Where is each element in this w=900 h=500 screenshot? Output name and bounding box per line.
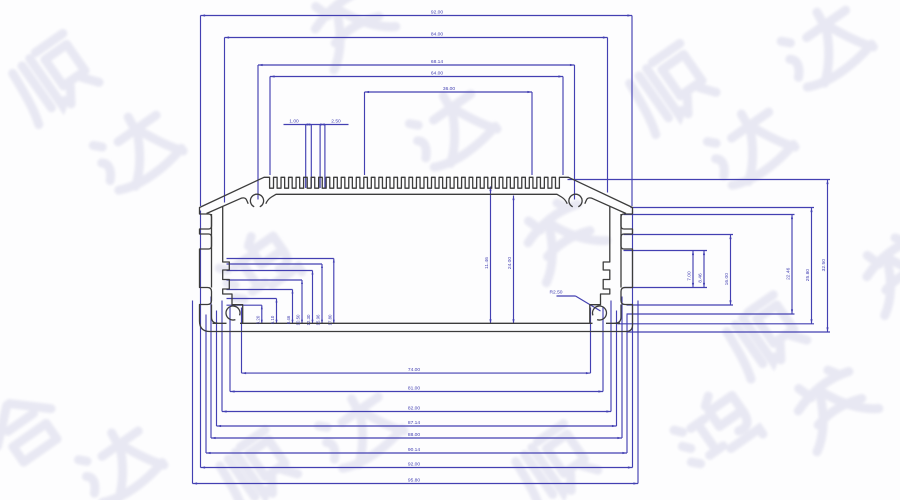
svg-text:10.50: 10.50	[296, 314, 301, 326]
svg-text:16.00: 16.00	[724, 273, 730, 286]
svg-text:22.46: 22.46	[785, 267, 791, 280]
svg-text:92.00: 92.00	[408, 461, 421, 467]
svg-text:68.14: 68.14	[431, 59, 444, 65]
svg-text:32.50: 32.50	[821, 259, 827, 272]
svg-text:92.00: 92.00	[431, 9, 444, 15]
svg-text:1.00: 1.00	[289, 118, 299, 124]
svg-text:2.50: 2.50	[331, 118, 341, 124]
svg-text:95.80: 95.80	[408, 477, 421, 483]
svg-text:90.14: 90.14	[408, 447, 421, 453]
svg-text:5.10: 5.10	[270, 315, 275, 324]
svg-text:74.00: 74.00	[408, 367, 421, 373]
svg-text:25.80: 25.80	[805, 269, 811, 282]
svg-text:8.46: 8.46	[697, 273, 703, 283]
svg-text:81.00: 81.00	[408, 385, 421, 391]
svg-text:64.00: 64.00	[431, 70, 444, 76]
svg-text:87.14: 87.14	[408, 420, 421, 426]
svg-text:36.00: 36.00	[443, 86, 456, 92]
svg-text:7.00: 7.00	[686, 271, 692, 281]
svg-text:24.00: 24.00	[507, 257, 513, 270]
svg-text:12.30: 12.30	[306, 314, 311, 326]
svg-text:84.00: 84.00	[431, 31, 444, 37]
svg-text:17.80: 17.80	[327, 314, 332, 326]
svg-text:88.00: 88.00	[408, 432, 421, 438]
svg-text:8.46: 8.46	[286, 315, 291, 324]
svg-text:15.96: 15.96	[316, 314, 321, 326]
svg-text:3.20: 3.20	[255, 315, 260, 324]
svg-text:11.46: 11.46	[484, 257, 490, 269]
svg-text:R2.50: R2.50	[549, 290, 562, 296]
svg-text:82.00: 82.00	[408, 405, 421, 411]
